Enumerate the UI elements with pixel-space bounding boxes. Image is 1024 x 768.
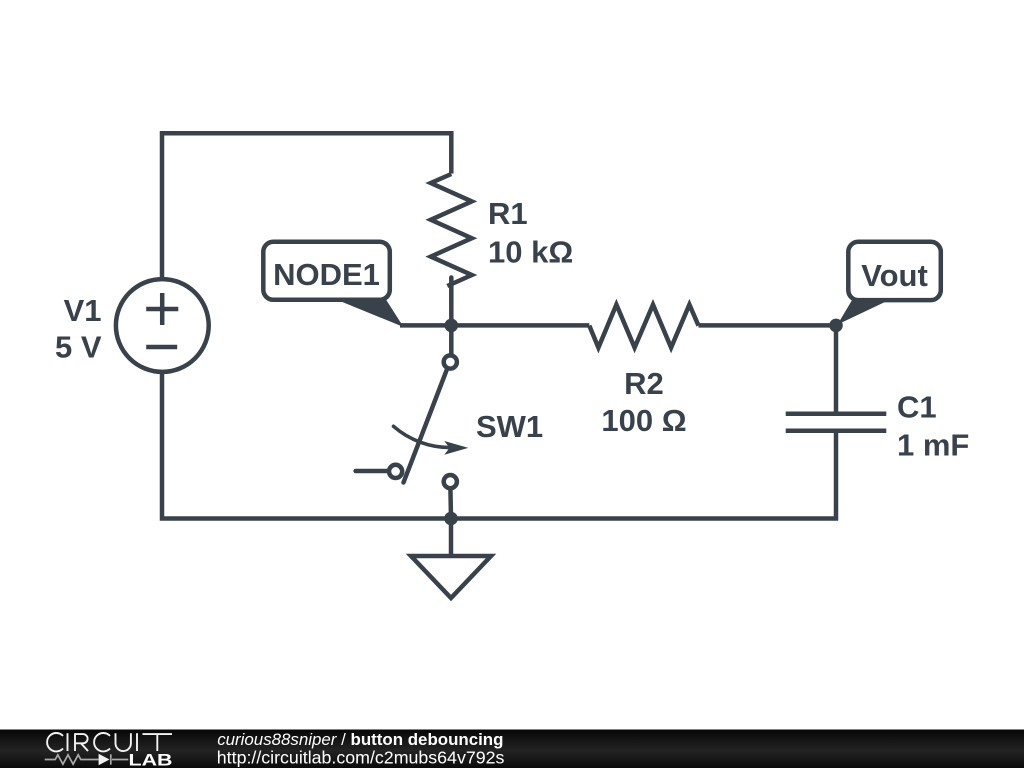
junction node at NODE1 [445, 319, 459, 333]
footer bar [0, 730, 1024, 768]
junction node at ground rail [444, 512, 458, 526]
switch SW1 blade [404, 371, 447, 483]
voltage source V1 [116, 279, 209, 372]
wire NODE1 tail tip to junction [400, 323, 451, 328]
switch SW1 left stub wire [356, 469, 396, 474]
label C1 value [897, 390, 969, 463]
svg-text:curious88sniper / button debou: curious88sniper / button debouncing [217, 730, 503, 749]
svg-text:R2: R2 [624, 366, 664, 401]
wire top from V1 to R1 [162, 133, 451, 277]
switch SW1 terminal circles [389, 355, 457, 488]
svg-text:NODE1: NODE1 [273, 257, 380, 292]
footer logo squiggle resistor and diode [45, 754, 129, 764]
label R2 value [601, 366, 686, 438]
wire Vout junction down to C1 [834, 325, 839, 413]
footer logo CIRCUIT [47, 733, 172, 751]
svg-text:LAB: LAB [129, 752, 173, 768]
wire junction to R2 [451, 323, 589, 328]
wire V1 bottom to ground rail [162, 374, 836, 519]
svg-text:http://circuitlab.com/c2mubs64: http://circuitlab.com/c2mubs64v792s [217, 748, 505, 768]
node label Vout [838, 242, 941, 325]
svg-text:10 kΩ: 10 kΩ [488, 235, 573, 270]
node label NODE1 [263, 242, 403, 327]
switch SW1 top wire [449, 325, 454, 362]
switch SW1 bottom wire [448, 482, 453, 519]
svg-text:5 V: 5 V [55, 330, 102, 365]
svg-text:V1: V1 [64, 293, 102, 328]
resistor R1 [431, 174, 472, 286]
svg-text:R1: R1 [488, 196, 528, 231]
svg-text:SW1: SW1 [476, 409, 543, 444]
svg-text:1 mF: 1 mF [897, 428, 969, 463]
svg-text:C1: C1 [897, 390, 937, 425]
switch SW1 actuation arc with arrow [394, 426, 469, 454]
label R1 value [488, 196, 573, 270]
ground symbol [411, 519, 491, 599]
wire R1 bottom to NODE1 junction [449, 278, 454, 326]
wire R2 to Vout junction [699, 323, 837, 328]
label V1 value [55, 293, 102, 365]
svg-text:Vout: Vout [861, 258, 928, 293]
svg-text:100 Ω: 100 Ω [601, 403, 686, 438]
resistor R2 [589, 305, 698, 348]
capacitor C1 [786, 414, 887, 431]
junction node at Vout [829, 319, 843, 333]
